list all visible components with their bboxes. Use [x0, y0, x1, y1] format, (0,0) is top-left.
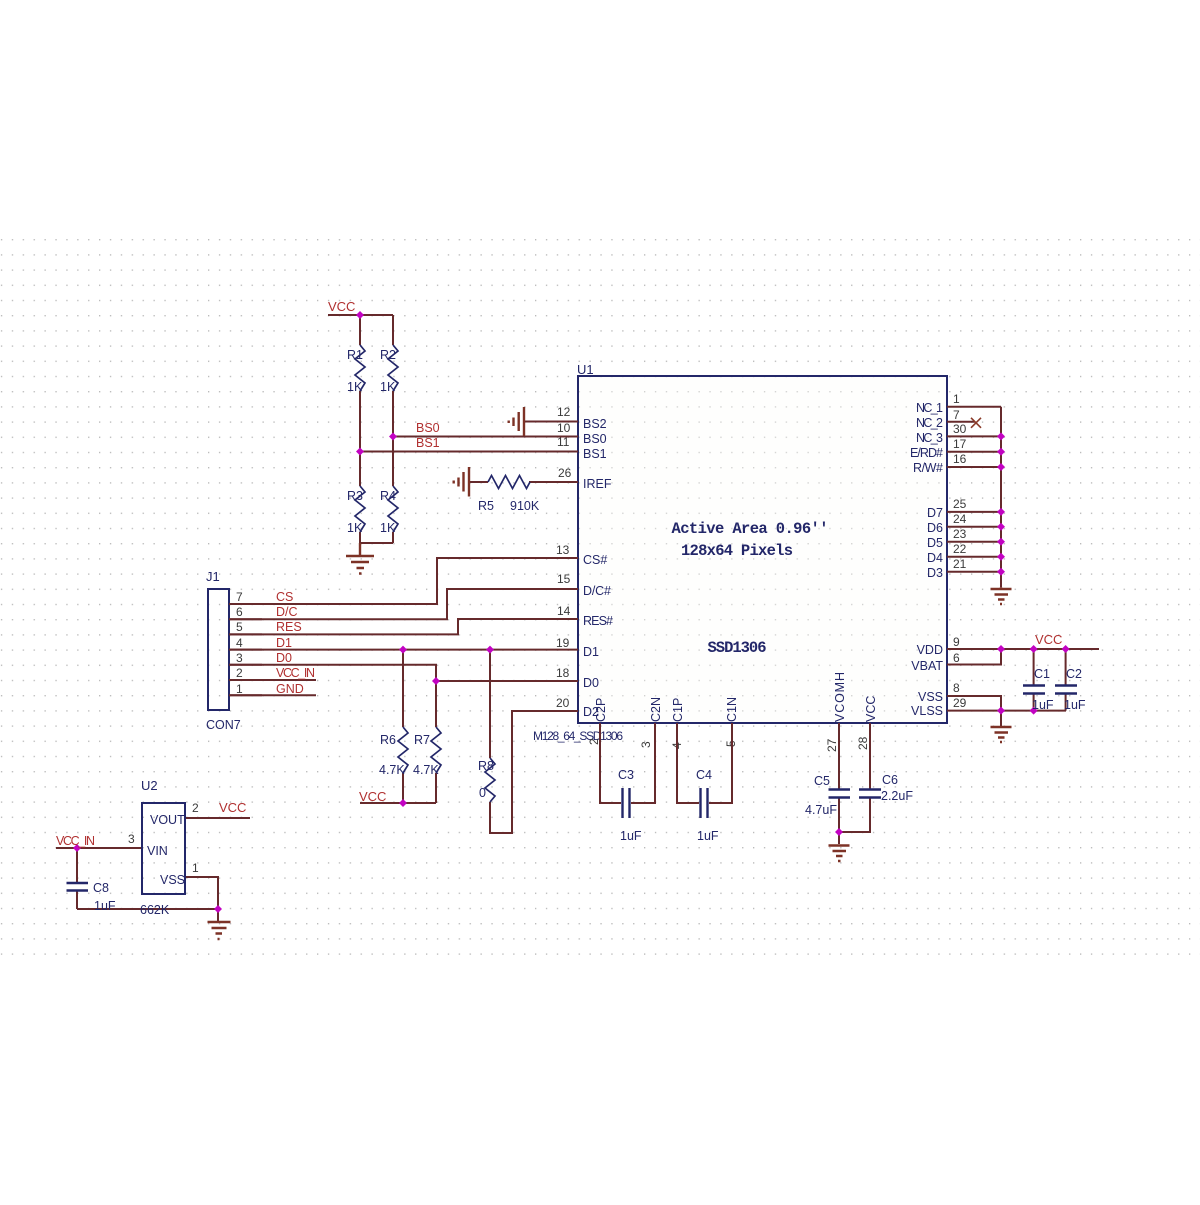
- junction U2 ground node: [214, 905, 222, 913]
- svg-text:BS0: BS0: [583, 432, 607, 446]
- svg-text:20: 20: [556, 696, 570, 710]
- svg-text:7: 7: [953, 408, 960, 422]
- junction VCC rail/R6: [399, 799, 407, 807]
- wire VCC_IN to U2 VIN: [56, 847, 142, 849]
- wire C3 to C2N: [631, 723, 655, 803]
- junction bus D4: [997, 553, 1005, 561]
- wire C8 leads: [76, 848, 78, 909]
- svg-text:D1: D1: [276, 636, 292, 650]
- wire C5 bottom to ground node: [838, 799, 840, 833]
- wire R8 top lead to D1: [489, 650, 491, 758]
- svg-text:0: 0: [479, 786, 486, 800]
- wire BS1 net: [360, 451, 578, 453]
- svg-text:28: 28: [856, 736, 870, 750]
- svg-text:29: 29: [953, 696, 967, 710]
- svg-text:30: 30: [953, 422, 967, 436]
- svg-text:25: 25: [953, 497, 967, 511]
- connector J1 body CON7: [206, 569, 241, 732]
- svg-text:VCC: VCC: [359, 789, 386, 804]
- wire VCC_IN stub from J1: [229, 679, 316, 681]
- svg-text:D1: D1: [583, 645, 599, 659]
- svg-text:C1P: C1P: [671, 698, 685, 722]
- wire R1 leads chain: [359, 315, 361, 543]
- U1 left pin numbers: [556, 405, 572, 710]
- wire U2 VSS to ground node: [185, 877, 218, 909]
- svg-text:C1: C1: [1034, 667, 1050, 681]
- wire VSS riser: [947, 696, 1001, 711]
- svg-text:1: 1: [236, 682, 243, 696]
- wire R6 leads: [402, 650, 404, 803]
- wire C6 bottom to ground node: [839, 799, 870, 833]
- svg-text:1K: 1K: [380, 380, 396, 394]
- svg-text:NC_1: NC_1: [916, 401, 943, 415]
- U1 left pin names: [583, 417, 613, 719]
- svg-text:1: 1: [953, 392, 960, 406]
- capacitor C3 plates: [623, 788, 630, 818]
- svg-text:VOUT: VOUT: [150, 813, 185, 827]
- svg-text:D7: D7: [927, 506, 943, 520]
- wire mid bottom ground stem: [838, 832, 840, 844]
- wire BS0 net: [393, 436, 578, 438]
- svg-text:27: 27: [825, 738, 839, 752]
- svg-text:3: 3: [639, 741, 653, 748]
- U1 right pin numbers: [953, 392, 967, 710]
- svg-text:2: 2: [587, 738, 601, 745]
- svg-text:D4: D4: [927, 551, 943, 565]
- svg-text:24: 24: [953, 512, 967, 526]
- svg-text:VCC: VCC: [1035, 632, 1062, 647]
- wire D4 to bus: [947, 556, 1001, 558]
- svg-text:1K: 1K: [380, 521, 396, 535]
- svg-text:C6: C6: [882, 773, 898, 787]
- capacitor C5 plates: [829, 790, 851, 798]
- svg-text:1uF: 1uF: [697, 829, 719, 843]
- svg-text:19: 19: [556, 636, 570, 650]
- junction C5 C6 ground node: [835, 828, 843, 836]
- ground at R5 (rotated): [454, 467, 469, 497]
- svg-text:662K: 662K: [140, 903, 170, 917]
- wire VCC pin28 to C6: [869, 723, 871, 789]
- capacitor C1 plates: [1023, 686, 1045, 694]
- junction VCC_IN/C8: [73, 844, 81, 852]
- svg-text:CS#: CS#: [583, 553, 607, 567]
- capacitor C2 plates: [1055, 686, 1077, 694]
- svg-text:VBAT: VBAT: [911, 659, 943, 673]
- ground U2: [208, 922, 231, 939]
- svg-text:BS2: BS2: [583, 417, 607, 431]
- svg-text:7: 7: [236, 590, 243, 604]
- svg-text:1uF: 1uF: [1032, 698, 1054, 712]
- svg-text:U2: U2: [141, 778, 158, 793]
- svg-text:VCC: VCC: [328, 299, 355, 314]
- wire C1 leads: [1033, 649, 1035, 711]
- wire NC_1 to bus: [947, 406, 1001, 408]
- svg-text:910K: 910K: [510, 499, 540, 513]
- wire D2 net to R8 bottom: [490, 711, 578, 833]
- svg-text:NC_3: NC_3: [916, 431, 943, 445]
- resistor R6 4.7K: [398, 727, 408, 773]
- junction VLSS/C1: [1030, 707, 1038, 715]
- junction VDD/C1: [1030, 645, 1038, 653]
- capacitor C8 plates: [67, 883, 89, 891]
- junction bus D5: [997, 538, 1005, 546]
- wire VDD / VCC rail right: [947, 648, 1099, 650]
- svg-text:C4: C4: [696, 768, 712, 782]
- svg-text:22: 22: [953, 542, 967, 556]
- wire right vertical bus: [1000, 407, 1002, 588]
- wire U2 VOUT to VCC: [185, 817, 250, 819]
- svg-text:D0: D0: [583, 676, 599, 690]
- svg-text:3: 3: [236, 651, 243, 665]
- svg-text:15: 15: [557, 572, 571, 586]
- resistor R8 0 ohm: [485, 758, 495, 802]
- svg-text:BS1: BS1: [416, 436, 440, 450]
- svg-text:17: 17: [953, 437, 967, 451]
- svg-text:6: 6: [236, 605, 243, 619]
- svg-text:GND: GND: [276, 682, 304, 696]
- svg-text:J1: J1: [206, 569, 220, 584]
- svg-text:4.7uF: 4.7uF: [805, 803, 837, 817]
- svg-text:2: 2: [236, 666, 243, 680]
- wire D1 net: [229, 649, 578, 651]
- svg-text:10: 10: [557, 421, 571, 435]
- svg-text:VDD: VDD: [917, 643, 943, 657]
- wire D5 to bus: [947, 541, 1001, 543]
- svg-text:U1: U1: [577, 362, 594, 377]
- svg-text:4.7K: 4.7K: [413, 763, 439, 777]
- capacitor C6 plates: [859, 790, 881, 798]
- wire C2 leads: [1065, 649, 1067, 711]
- svg-text:VSS: VSS: [160, 873, 185, 887]
- wire C8 to U2 ground rail: [77, 908, 218, 910]
- ground below R3 R4: [346, 543, 374, 574]
- svg-text:BS1: BS1: [583, 447, 607, 461]
- wire D3 to bus: [947, 571, 1001, 573]
- wire C2P to C3: [600, 723, 621, 803]
- wire CS net: [229, 558, 578, 604]
- svg-text:C5: C5: [814, 774, 830, 788]
- svg-text:3: 3: [128, 832, 135, 846]
- svg-text:2.2uF: 2.2uF: [881, 789, 913, 803]
- junction bus D6: [997, 523, 1005, 531]
- wire D0 net: [229, 665, 578, 681]
- wire C4 to C1N: [709, 723, 732, 803]
- svg-text:C2: C2: [1066, 667, 1082, 681]
- svg-text:26: 26: [558, 466, 572, 480]
- wire GND stub from J1: [229, 694, 316, 696]
- ground right bus: [991, 587, 1012, 604]
- svg-text:C8: C8: [93, 881, 109, 895]
- wire D6 to bus: [947, 526, 1001, 528]
- ground at BS2 pin (rotated): [509, 407, 524, 436]
- ground mid bottom C5 C6: [829, 846, 850, 862]
- junction D1/R8: [486, 646, 494, 654]
- junction VCC/R1: [356, 311, 364, 319]
- svg-text:VCC_IN: VCC_IN: [276, 666, 315, 680]
- wire C1P to C4: [677, 723, 699, 803]
- svg-text:1uF: 1uF: [1064, 698, 1086, 712]
- svg-text:VCC_IN: VCC_IN: [56, 834, 95, 848]
- wire IREF / R5 leads: [469, 481, 578, 483]
- svg-text:R7: R7: [414, 733, 430, 747]
- svg-text:E/RD#: E/RD#: [910, 446, 943, 460]
- wire R/W# to bus: [947, 466, 1001, 468]
- svg-text:VCOMH: VCOMH: [833, 672, 847, 722]
- resistor R4 1K: [388, 486, 398, 532]
- svg-text:BS0: BS0: [416, 421, 440, 435]
- no-connect X on NC_2: [971, 418, 981, 428]
- wire BS2 to ground: [524, 421, 578, 423]
- svg-text:CS: CS: [276, 590, 293, 604]
- svg-text:D/C: D/C: [276, 605, 298, 619]
- wire VCOMH to C5: [838, 723, 840, 789]
- svg-text:14: 14: [557, 604, 571, 618]
- svg-text:5: 5: [236, 620, 243, 634]
- svg-text:D6: D6: [927, 521, 943, 535]
- svg-text:4.7K: 4.7K: [379, 763, 405, 777]
- J1 net labels: [276, 590, 315, 696]
- junction bus D7: [997, 508, 1005, 516]
- J1 pin numbers: [236, 590, 243, 696]
- svg-text:R2: R2: [380, 348, 396, 362]
- wire D/C net: [229, 589, 578, 619]
- resistor R5 910K zigzag: [488, 476, 530, 489]
- svg-text:1K: 1K: [347, 521, 363, 535]
- svg-text:12: 12: [557, 405, 571, 419]
- svg-text:128x64 Pixels: 128x64 Pixels: [681, 542, 793, 560]
- svg-text:1K: 1K: [347, 380, 363, 394]
- svg-text:C2P: C2P: [594, 698, 608, 722]
- svg-text:23: 23: [953, 527, 967, 541]
- regulator U2 body: [141, 778, 185, 894]
- svg-text:VIN: VIN: [147, 844, 168, 858]
- ground right bottom: [991, 727, 1012, 742]
- svg-text:SSD1306: SSD1306: [708, 639, 767, 657]
- wire D7 to bus: [947, 511, 1001, 513]
- svg-text:R4: R4: [380, 489, 396, 503]
- svg-text:1: 1: [192, 861, 199, 875]
- svg-text:4: 4: [236, 636, 243, 650]
- svg-text:C1N: C1N: [725, 697, 739, 722]
- IC U1 SSD1306 body: [533, 362, 947, 743]
- svg-text:18: 18: [556, 666, 570, 680]
- U1 bottom pin names rotated: [594, 672, 878, 722]
- resistor R1 1K: [355, 345, 365, 391]
- svg-text:R1: R1: [347, 348, 363, 362]
- svg-text:16: 16: [953, 452, 967, 466]
- wire VBAT riser: [947, 649, 1001, 665]
- svg-text:R3: R3: [347, 489, 363, 503]
- svg-text:8: 8: [953, 681, 960, 695]
- J1 pin stubs: [229, 604, 262, 695]
- resistor R7 4.7K: [431, 727, 441, 773]
- resistor R3 1K: [355, 486, 365, 532]
- junction bus R/W#: [997, 463, 1005, 471]
- svg-text:9: 9: [953, 635, 960, 649]
- svg-text:RES#: RES#: [583, 614, 613, 628]
- wire RES net: [229, 619, 578, 634]
- svg-text:R5: R5: [478, 499, 494, 513]
- svg-text:M128_64_SSD1306: M128_64_SSD1306: [533, 729, 623, 743]
- svg-text:D5: D5: [927, 536, 943, 550]
- svg-text:RES: RES: [276, 620, 302, 634]
- svg-text:IREF: IREF: [583, 477, 612, 491]
- junction D1/R6: [399, 646, 407, 654]
- svg-text:R8: R8: [478, 759, 494, 773]
- svg-text:NC_2: NC_2: [916, 416, 943, 430]
- svg-text:D0: D0: [276, 651, 292, 665]
- junction VLSS/VSS: [997, 707, 1005, 715]
- svg-text:VSS: VSS: [918, 690, 943, 704]
- wire VLSS rail: [947, 710, 1066, 712]
- svg-text:VLSS: VLSS: [911, 704, 943, 718]
- wire R7 leads: [435, 681, 437, 803]
- svg-text:C2N: C2N: [649, 697, 663, 722]
- junction VDD/C2: [1062, 645, 1070, 653]
- wire NC_2 stub: [947, 421, 975, 423]
- junction bus E/RD#: [997, 448, 1005, 456]
- svg-text:13: 13: [556, 543, 570, 557]
- junction bus D3: [997, 568, 1005, 576]
- resistor R2 1K: [388, 345, 398, 391]
- svg-text:6: 6: [953, 651, 960, 665]
- wire U2 ground stem: [217, 909, 219, 921]
- junction VDD/VBAT: [997, 645, 1005, 653]
- svg-text:2: 2: [192, 801, 199, 815]
- svg-text:1uF: 1uF: [620, 829, 642, 843]
- svg-text:D3: D3: [927, 566, 943, 580]
- svg-text:C3: C3: [618, 768, 634, 782]
- junction BS0/R2: [389, 433, 397, 441]
- junction D0/R7: [432, 677, 440, 685]
- svg-text:21: 21: [953, 557, 967, 571]
- svg-text:R6: R6: [380, 733, 396, 747]
- wire right bottom ground stem: [1000, 711, 1002, 726]
- U1 bottom pin numbers rotated: [587, 736, 870, 752]
- junction bus NC_3: [997, 432, 1005, 440]
- wire NC_3 to bus: [947, 435, 1001, 437]
- svg-text:VCC: VCC: [219, 800, 246, 815]
- wire R2 leads chain: [360, 315, 393, 543]
- svg-text:1uF: 1uF: [94, 899, 116, 913]
- wire VCC rail lower left: [360, 802, 436, 804]
- capacitor C4 plates: [701, 788, 708, 818]
- junction BS1/R1: [356, 448, 364, 456]
- svg-text:VCC: VCC: [864, 696, 878, 722]
- U1 right pin names: [910, 401, 943, 718]
- svg-text:R/W#: R/W#: [913, 461, 943, 475]
- svg-text:CON7: CON7: [206, 718, 241, 732]
- wire VCC top rail: [328, 314, 393, 316]
- svg-text:D/C#: D/C#: [583, 584, 611, 598]
- wire E/RD# to bus: [947, 451, 1001, 453]
- svg-text:Active Area 0.96'': Active Area 0.96'': [672, 520, 829, 538]
